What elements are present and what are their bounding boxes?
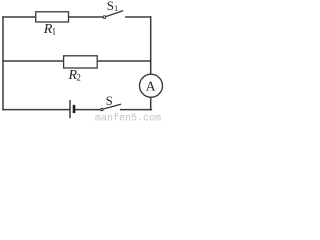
switch S1 blade (106, 11, 123, 17)
ammeter A (140, 74, 163, 97)
switch S1 contact circle (103, 16, 106, 19)
resistor R1 (36, 12, 69, 22)
wire middle-left horizontal (3, 60, 64, 62)
svg-text:S: S (106, 94, 113, 108)
switch S blade (103, 104, 121, 109)
wire middle-right horizontal (97, 60, 151, 62)
svg-text:manfen5.com: manfen5.com (95, 113, 161, 122)
wire left vertical (2, 17, 4, 110)
svg-text:2: 2 (76, 73, 81, 83)
svg-text:1: 1 (114, 3, 118, 13)
switch S contact circle (101, 108, 103, 110)
svg-text:A: A (146, 79, 156, 94)
wire bottom-right horizontal (121, 109, 152, 111)
wire right vertical upper (150, 17, 152, 74)
wire top-right horizontal (126, 16, 151, 18)
wire between battery and switch S (76, 109, 100, 111)
resistor R2 (64, 56, 98, 68)
wire right vertical lower (ammeter to bottom) (150, 98, 152, 110)
battery long plate (+) (69, 100, 71, 118)
wire bottom-left horizontal (3, 109, 69, 111)
wire between R1 and switch S1 (69, 16, 103, 18)
battery short thick plate (-) (73, 105, 76, 113)
wire top-left horizontal (3, 16, 36, 18)
svg-text:S: S (107, 0, 114, 13)
svg-text:1: 1 (52, 27, 57, 37)
